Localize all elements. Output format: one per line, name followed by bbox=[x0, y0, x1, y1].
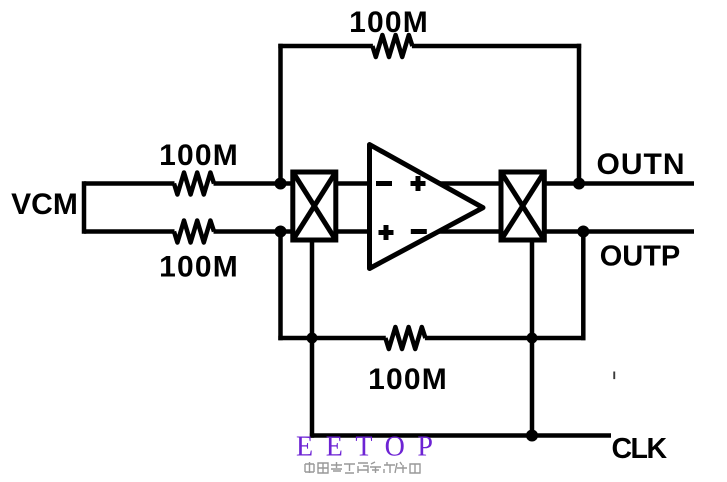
node: junction dot bottom feedback left bbox=[307, 333, 318, 344]
chopper switch SW1 X diagonal 2 bbox=[293, 172, 336, 240]
wire: bottom feedback horizontal left segment bbox=[278, 336, 386, 341]
wire: bottom feedback left vertical bbox=[278, 232, 283, 341]
svg-text:OUTP: OUTP bbox=[600, 241, 681, 273]
wire: SW2 to OUTN bbox=[544, 181, 694, 186]
wire: SW2 to OUTP bbox=[544, 229, 694, 234]
wire: VCM to R3 bottom bbox=[84, 229, 175, 234]
chopper switch SW2 box bbox=[501, 172, 544, 240]
resistor R4 100M bottom feedback bbox=[385, 327, 425, 349]
wire: top feedback right vertical bbox=[577, 44, 582, 184]
svg-text:100M: 100M bbox=[159, 251, 239, 284]
wire: SW1 clock vertical bbox=[310, 240, 315, 438]
wire: bottom feedback horizontal right segment bbox=[425, 336, 586, 341]
wire: VCM to R2 top bbox=[84, 181, 175, 186]
wire: bottom feedback right vertical bbox=[581, 232, 586, 341]
wire: SW1 output to op-amp / SW2 top (passes under op-amp) bbox=[336, 181, 502, 186]
op-amp U1 plus sign bottom-left bbox=[379, 225, 394, 240]
resistor R2 100M input top bbox=[174, 173, 214, 195]
wire: top feedback horizontal left segment bbox=[278, 44, 373, 49]
wire: R2 to chopper SW1 top bbox=[214, 181, 295, 186]
svg-text:CLK: CLK bbox=[611, 433, 667, 465]
op-amp U1 minus sign top-left bbox=[376, 181, 392, 186]
watermark chinese subtitle bbox=[305, 462, 420, 473]
svg-text:EETOP: EETOP bbox=[296, 432, 446, 463]
op-amp U1 plus sign top-right bbox=[411, 176, 426, 191]
node: junction dot OUTN feedback bbox=[573, 178, 585, 190]
chopper switch SW1 X diagonal 1 bbox=[293, 172, 336, 240]
op-amp U1 triangle bbox=[370, 145, 484, 269]
chopper switch SW1 box bbox=[293, 172, 336, 240]
wire: R3 to chopper SW1 bottom bbox=[214, 229, 295, 234]
wire: VCM left vertical bbox=[82, 181, 87, 233]
chopper switch SW2 X diagonal 1 bbox=[501, 172, 544, 240]
node: junction dot input bottom bbox=[275, 226, 287, 238]
svg-text:VCM: VCM bbox=[11, 188, 78, 221]
node: junction dot input top bbox=[275, 178, 287, 190]
wire: CLK horizontal bbox=[310, 433, 611, 438]
svg-text:OUTN: OUTN bbox=[597, 148, 686, 181]
node: junction dot bottom feedback right bbox=[527, 333, 538, 344]
svg-text:100M: 100M bbox=[159, 139, 239, 172]
svg-text:100M: 100M bbox=[368, 363, 448, 396]
resistor R3 100M input bottom bbox=[174, 221, 214, 243]
stray tick mark bbox=[613, 372, 615, 380]
resistor R1 100M top feedback bbox=[372, 35, 412, 57]
wire: top feedback horizontal right segment bbox=[412, 44, 581, 49]
chopper switch SW2 X diagonal 2 bbox=[501, 172, 544, 240]
wire: SW1 output to op-amp / SW2 bottom (passes under op-amp) bbox=[336, 229, 502, 234]
wire: top feedback left vertical bbox=[278, 44, 283, 184]
node: junction dot CLK bbox=[526, 430, 538, 442]
wire: SW2 clock vertical bbox=[530, 240, 535, 436]
op-amp U1 minus sign bottom-right bbox=[411, 229, 427, 234]
node: junction dot OUTP feedback bbox=[577, 226, 589, 238]
svg-text:100M: 100M bbox=[349, 6, 429, 39]
